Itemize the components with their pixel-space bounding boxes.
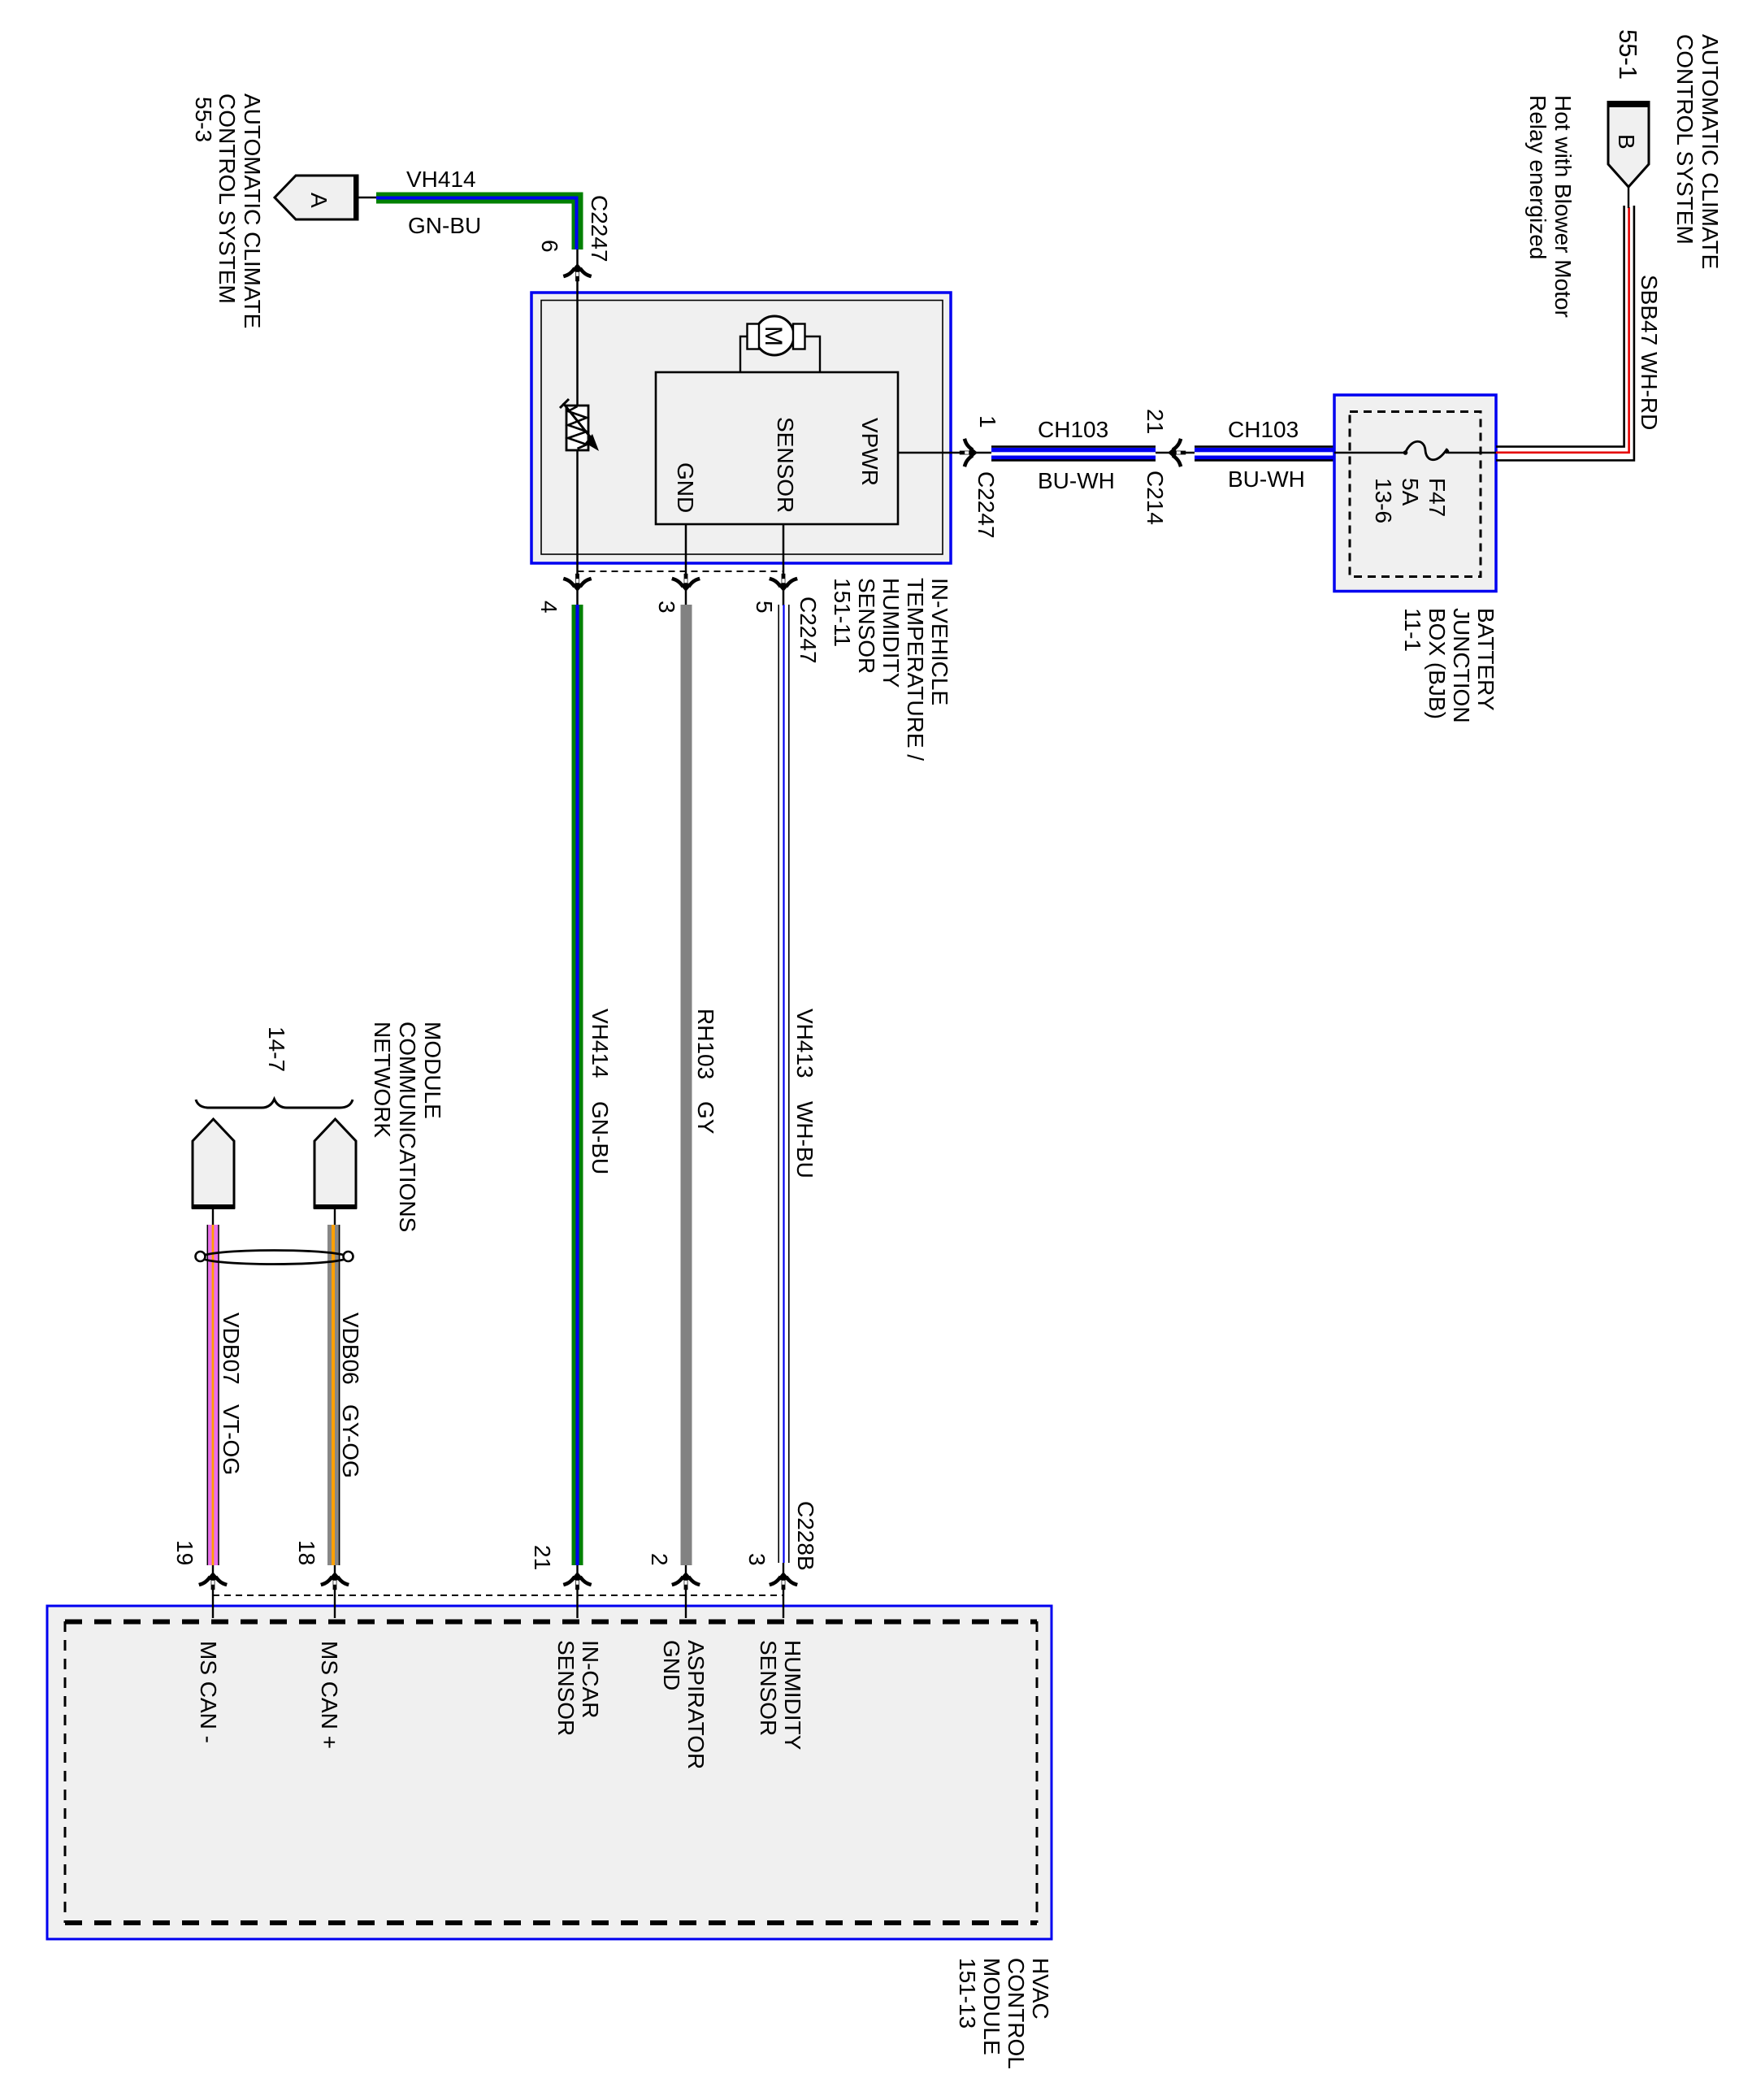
svg-text:IN-VEHICLE: IN-VEHICLE xyxy=(927,578,952,705)
svg-text:19: 19 xyxy=(172,1540,197,1565)
svg-text:SENSOR: SENSOR xyxy=(756,1640,781,1736)
svg-text:151-11: 151-11 xyxy=(830,578,855,647)
wire stub A xyxy=(358,197,376,199)
svg-text:VT-OG: VT-OG xyxy=(219,1404,244,1475)
wire VDB06 GY-OG xyxy=(327,1225,340,1565)
svg-text:GY: GY xyxy=(693,1101,718,1135)
svg-text:C2247: C2247 xyxy=(587,195,612,262)
connector pentagon MS CAN - xyxy=(193,1119,234,1208)
wire motor left lead xyxy=(740,336,748,372)
svg-text:6: 6 xyxy=(537,240,562,253)
wire VPWR to pin 1 xyxy=(898,452,991,454)
svg-text:M: M xyxy=(760,326,787,346)
svg-text:MS CAN -: MS CAN - xyxy=(196,1641,221,1743)
svg-text:21: 21 xyxy=(1143,409,1168,434)
svg-text:Hot with Blower Motor: Hot with Blower Motor xyxy=(1550,95,1576,318)
wire into fuse xyxy=(1334,452,1405,454)
svg-text:55-1: 55-1 xyxy=(1614,29,1642,80)
wire link to C214 xyxy=(1156,452,1195,454)
connector arrows into HVAC xyxy=(201,1572,225,1590)
dashed connector line C2247 xyxy=(578,571,784,572)
wire SBB47 WH-RD xyxy=(1496,206,1624,447)
svg-text:CONTROL: CONTROL xyxy=(1004,1958,1029,2069)
svg-text:14-7: 14-7 xyxy=(264,1026,289,1072)
svg-text:ASPIRATOR: ASPIRATOR xyxy=(683,1640,709,1769)
wire CH103 BU-WH segment 1 xyxy=(991,448,1156,460)
connector B from blower relay xyxy=(1628,187,1629,208)
svg-text:SENSOR: SENSOR xyxy=(553,1640,579,1736)
svg-text:C2247: C2247 xyxy=(974,471,999,539)
svg-text:SENSOR: SENSOR xyxy=(773,417,798,513)
wire stubs from pentagons xyxy=(212,1208,214,1226)
connector A to climate control xyxy=(275,176,358,219)
svg-text:GN-BU: GN-BU xyxy=(408,213,481,238)
svg-text:GN-BU: GN-BU xyxy=(588,1101,613,1174)
svg-text:55-3: 55-3 xyxy=(191,97,216,142)
svg-text:RH103: RH103 xyxy=(693,1009,718,1079)
svg-text:IN-CAR: IN-CAR xyxy=(578,1640,603,1718)
svg-text:B: B xyxy=(1614,134,1639,150)
svg-text:5: 5 xyxy=(752,601,777,614)
svg-text:BU-WH: BU-WH xyxy=(1228,466,1305,492)
svg-text:5A: 5A xyxy=(1398,478,1423,506)
svg-text:HUMIDITY: HUMIDITY xyxy=(878,578,904,688)
wire leads into HVAC module xyxy=(212,1565,214,1618)
svg-text:TEMPERATURE /: TEMPERATURE / xyxy=(903,578,928,761)
wire motor right lead xyxy=(805,336,821,372)
svg-text:VH413: VH413 xyxy=(792,1009,817,1078)
svg-text:SBB47 WH-RD: SBB47 WH-RD xyxy=(1637,275,1662,430)
svg-text:VPWR: VPWR xyxy=(857,418,883,486)
svg-text:VDB06: VDB06 xyxy=(338,1312,363,1385)
svg-text:VH414: VH414 xyxy=(406,167,476,192)
svg-text:1: 1 xyxy=(975,415,1000,428)
svg-text:11-1: 11-1 xyxy=(1400,608,1425,652)
svg-text:13-6: 13-6 xyxy=(1371,478,1396,523)
svg-text:CONTROL SYSTEM: CONTROL SYSTEM xyxy=(215,93,240,304)
svg-text:VDB07: VDB07 xyxy=(219,1312,244,1385)
svg-text:GND: GND xyxy=(673,462,698,513)
wire VH414 GN-BU long run xyxy=(572,605,583,1565)
connector arrows pins 4 3 5 xyxy=(566,574,590,592)
in-vehicle temperature / humidity sensor box 151-11 xyxy=(531,293,951,563)
svg-text:GY-OG: GY-OG xyxy=(338,1404,363,1478)
svg-text:BOX (BJB): BOX (BJB) xyxy=(1425,608,1450,719)
svg-text:WH-BU: WH-BU xyxy=(792,1101,817,1178)
HVAC control module box 151-13 xyxy=(47,1606,1052,1939)
connector arrow pin 1 C2247 xyxy=(960,440,978,465)
svg-text:MS CAN +: MS CAN + xyxy=(317,1641,342,1749)
pin 6 wire out of sensor top xyxy=(576,249,579,293)
svg-text:GND: GND xyxy=(659,1640,684,1690)
twisted pair symbol xyxy=(201,1251,349,1265)
sensor internal unit box xyxy=(656,372,898,524)
wire fuse to box edge xyxy=(1448,452,1496,454)
wire CH103 BU-WH segment 2 xyxy=(1195,448,1334,460)
svg-text:BU-WH: BU-WH xyxy=(1038,468,1115,493)
svg-text:CH103: CH103 xyxy=(1228,417,1299,442)
svg-text:C214: C214 xyxy=(1143,471,1168,525)
wire VH413 WH-BU long run xyxy=(778,605,779,1563)
connector arrow C214 xyxy=(1168,440,1186,465)
svg-text:C228B: C228B xyxy=(793,1501,818,1571)
svg-text:JUNCTION: JUNCTION xyxy=(1449,608,1474,723)
svg-text:NETWORK: NETWORK xyxy=(370,1022,395,1138)
motor M1 aspirator xyxy=(755,316,794,355)
svg-text:3: 3 xyxy=(654,601,679,614)
svg-text:COMMUNICATIONS: COMMUNICATIONS xyxy=(395,1022,420,1232)
sensor bottom pin leads xyxy=(576,450,579,605)
fuse F47 5A xyxy=(1405,441,1447,460)
svg-text:HUMIDITY: HUMIDITY xyxy=(780,1640,805,1751)
svg-text:2: 2 xyxy=(647,1553,672,1566)
thermistor RT1 variable resistor xyxy=(576,293,579,406)
svg-text:21: 21 xyxy=(530,1545,555,1570)
svg-text:151-13: 151-13 xyxy=(955,1958,980,2028)
dashed connector line C228B xyxy=(213,1595,783,1596)
wire VDB07 VT-OG xyxy=(208,1225,219,1565)
svg-text:CH103: CH103 xyxy=(1038,417,1108,442)
svg-text:BATTERY: BATTERY xyxy=(1473,608,1498,711)
svg-text:HVAC: HVAC xyxy=(1028,1958,1053,2020)
svg-text:VH414: VH414 xyxy=(588,1009,613,1078)
wire VH414 GN-BU top run xyxy=(376,193,583,204)
svg-text:F47: F47 xyxy=(1425,478,1450,517)
svg-text:CONTROL SYSTEM: CONTROL SYSTEM xyxy=(1672,34,1698,245)
svg-text:MODULE: MODULE xyxy=(979,1958,1004,2055)
svg-text:4: 4 xyxy=(536,601,562,614)
battery junction box BJB 11-1 xyxy=(1334,395,1496,592)
svg-text:AUTOMATIC CLIMATE: AUTOMATIC CLIMATE xyxy=(240,93,265,328)
svg-text:3: 3 xyxy=(744,1553,770,1566)
svg-text:SENSOR: SENSOR xyxy=(854,578,879,674)
svg-text:AUTOMATIC CLIMATE: AUTOMATIC CLIMATE xyxy=(1698,34,1723,269)
wire RH103 GY long run xyxy=(681,605,692,1565)
connector arrow pin 6 xyxy=(566,263,590,281)
svg-text:MODULE: MODULE xyxy=(420,1022,445,1119)
svg-text:18: 18 xyxy=(294,1540,319,1565)
brace xyxy=(196,1100,353,1109)
connector pentagon MS CAN + xyxy=(314,1119,356,1208)
svg-text:A: A xyxy=(306,193,332,208)
svg-text:Relay energized: Relay energized xyxy=(1525,95,1550,259)
svg-text:C2247: C2247 xyxy=(796,597,821,664)
